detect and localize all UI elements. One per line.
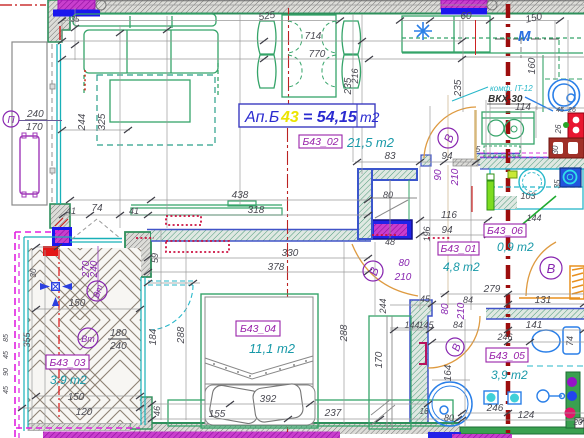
red column box [43,246,58,256]
svg-text:246: 246 [496,332,512,342]
svg-text:90: 90 [3,368,10,376]
svg-text:288: 288 [176,326,187,344]
svg-text:164: 164 [443,364,454,381]
bathroom top wall band [486,309,584,320]
toilet [532,327,580,354]
svg-text:Б43_05: Б43_05 [489,350,525,362]
top exterior wall [48,0,584,14]
svg-text:83: 83 [384,151,396,162]
blanket zigzag [205,356,313,374]
vertical wall bedroom/bathroom [410,300,432,430]
svg-text:П: П [7,115,15,126]
svg-text:комф. IT-12: комф. IT-12 [490,84,533,93]
svg-text:103: 103 [520,191,535,201]
svg-text:45: 45 [420,294,431,304]
svg-text:3,9 m2: 3,9 m2 [50,373,87,387]
teal border lines [23,237,25,431]
svg-text:170: 170 [374,351,385,368]
horizontal dim lines [62,20,340,22]
shower enclosure teal rect [490,169,583,209]
240/170 fraction at П [19,109,62,133]
svg-text:45: 45 [556,107,564,114]
svg-text:26: 26 [567,107,576,114]
B43_06 arc [526,242,556,296]
magenta/blue block on top wall right [441,0,487,15]
svg-text:46: 46 [152,406,162,416]
svg-text:288: 288 [339,324,350,342]
magenta bracket near bathroom door [419,343,426,364]
dining table [258,15,361,97]
svg-text:438: 438 [232,190,249,201]
entry door arc [424,107,476,158]
svg-text:318: 318 [248,205,265,216]
svg-text:ВКХ-30: ВКХ-30 [488,94,523,105]
svg-text:3,9 m2: 3,9 m2 [491,368,528,382]
hall bottom-left door arc [352,244,418,296]
svg-text:94: 94 [441,225,453,236]
svg-text:Б43_04: Б43_04 [240,323,276,335]
cyan dashed line bathroom [527,365,584,367]
yellow-green small box [508,171,517,178]
svg-text:41: 41 [66,206,76,216]
red tick on left wall [59,26,61,40]
svg-text:770: 770 [309,49,326,60]
svg-text:714: 714 [305,31,322,42]
svg-text:237: 237 [324,408,342,419]
svg-text:94: 94 [441,151,453,162]
svg-text:279: 279 [483,284,501,295]
red column box over parquet [43,246,58,256]
svg-text:210: 210 [394,272,412,283]
svg-text:60: 60 [460,11,472,22]
svg-text:120: 120 [76,407,93,418]
wall right of entry door [476,154,520,166]
shower tap symbol [537,390,565,402]
right bathroom riser strip [565,372,584,428]
svg-text:244: 244 [77,113,88,131]
blue magenta box below left column [52,227,72,246]
pillows [205,385,315,425]
svg-text:155: 155 [209,409,226,420]
counter with sink+hob [482,112,534,144]
svg-text:180: 180 [110,328,127,339]
living/bedroom interior wall [147,230,371,242]
svg-text:Б43_02: Б43_02 [302,136,338,148]
washing machine blue [560,168,581,187]
entry threshold hatch [453,159,478,166]
purple door dims [81,168,467,320]
balcony door teal [70,238,122,240]
svg-text:80: 80 [383,190,393,200]
svg-text:244: 244 [378,298,388,314]
svg-text:45: 45 [3,386,10,394]
entry door leaf tan [474,110,477,160]
bathroom door arc [428,316,480,368]
blue box with magenta hatch right end of wall [369,220,412,239]
top-left corner column [48,0,70,42]
parquet floor [28,248,141,423]
svg-text:Б43_06: Б43_06 [487,225,523,237]
balcony bottom wall strip [28,424,130,431]
svg-text:235: 235 [453,79,464,97]
svg-text:4,8 m2: 4,8 m2 [443,260,480,274]
svg-text:59: 59 [150,253,160,263]
180/240 fraction [108,328,130,352]
ВКХ-30 [452,84,533,105]
centerline through table/bedroom [288,8,290,110]
top-right dashed layout lines [462,39,584,112]
svg-text:16: 16 [420,407,429,416]
towel radiator orange right [519,266,584,299]
svg-text:84: 84 [453,320,463,330]
svg-text:85: 85 [3,334,10,342]
stove red appliance [563,113,584,139]
main title box [239,104,380,127]
svg-text:216: 216 [350,68,360,84]
svg-text:392: 392 [260,394,277,405]
room tags [46,135,528,369]
svg-text:124: 124 [518,410,535,421]
svg-text:144: 144 [526,213,541,223]
svg-text:74: 74 [565,336,575,346]
svg-text:131: 131 [535,295,552,306]
svg-text:80: 80 [398,258,410,269]
svg-text:26: 26 [554,124,563,134]
svg-text:141: 141 [526,320,543,331]
svg-text:43: 43 [280,109,299,126]
small wall block bottom-left of bedroom [130,397,152,429]
shower circle (bath top right) [519,169,545,195]
kitchen upper cabinet with asterisk [402,16,583,53]
svg-text:41: 41 [129,206,139,216]
svg-text:Ап.Б: Ап.Б [244,109,279,126]
svg-text:144: 144 [404,320,419,330]
blue arrows balcony [40,282,72,306]
svg-text:90: 90 [433,169,444,181]
vertical extension lines [119,25,121,228]
sofa [73,14,218,95]
svg-text:160: 160 [527,57,538,74]
bedroom balcony door dashes + swing [148,281,193,330]
green door strip vertical [487,181,494,210]
svg-text:240: 240 [89,260,100,278]
bedroom bottom exterior wall [130,423,460,434]
left wall lower column (balcony corner) [50,204,70,228]
svg-text:355: 355 [22,332,32,348]
TV cabinet [131,201,282,215]
red marks on walls [84,70,86,92]
kitchen/bathroom wall band [480,158,584,170]
svg-text:210: 210 [450,168,461,186]
svg-text:378: 378 [268,262,285,273]
svg-text:150: 150 [69,298,86,309]
bed [201,294,318,428]
svg-text:150: 150 [68,392,85,403]
svg-text:246: 246 [486,403,504,414]
svg-text:11,1 m2: 11,1 m2 [249,341,296,356]
section cut line [506,4,511,438]
big sink circle top right [525,80,580,112]
svg-text:В: В [547,261,556,276]
svg-text:325: 325 [97,113,108,130]
top-left red dashdot [0,4,46,6]
coffee table [110,80,190,122]
svg-text:= 54,15: = 54,15 [303,109,358,126]
svg-text:48: 48 [385,237,395,247]
svg-text:0,9 m2: 0,9 m2 [497,240,534,254]
asterisk symbol [414,22,432,40]
svg-text:45: 45 [3,351,10,359]
svg-text:145: 145 [418,320,434,330]
svg-text:80: 80 [444,413,454,423]
magenta dashed boundary [14,232,16,438]
closet walls (blue L) in hall [358,169,417,239]
grid axis bubble [96,0,106,10]
bathroom bottom wall green [460,427,584,434]
svg-text:330: 330 [282,248,299,259]
svg-text:30: 30 [29,268,38,277]
wall stub left of entry [421,155,431,166]
floor drains [484,391,521,404]
svg-text:116: 116 [441,210,457,221]
wardrobe right of bedroom [369,316,411,429]
svg-text:196: 196 [422,226,432,241]
svg-text:170: 170 [26,122,43,133]
dark red cabinet [549,138,584,158]
svg-text:184: 184 [148,328,159,345]
green diagonal shower door [518,196,556,228]
svg-text:80: 80 [440,303,451,315]
magenta bar bottom [43,432,340,438]
svg-text:35: 35 [71,15,80,24]
svg-text:Б43_01: Б43_01 [440,243,476,255]
magenta/blue block on top wall left [53,0,100,17]
areas [50,135,534,387]
carpet dashed [97,75,215,145]
svg-text:35: 35 [553,179,562,188]
svg-text:5: 5 [476,145,481,154]
svg-text:M: M [518,28,531,45]
svg-text:30: 30 [551,145,560,154]
svg-text:21,5 m2: 21,5 m2 [346,135,395,150]
svg-text:74: 74 [91,203,103,214]
svg-text:240: 240 [26,109,44,120]
corner T column living/bedroom/balcony [125,232,151,277]
svg-text:240: 240 [109,341,127,352]
dashed window opening marks balcony door [72,219,121,239]
svg-text:Б43_03: Б43_03 [49,357,85,369]
window sill band bottom [168,400,453,426]
svg-text:m2: m2 [360,109,380,125]
svg-text:210: 210 [456,302,467,320]
svg-text:Вт: Вт [81,334,95,344]
sink big circle [428,382,472,426]
svg-text:20: 20 [573,418,583,427]
